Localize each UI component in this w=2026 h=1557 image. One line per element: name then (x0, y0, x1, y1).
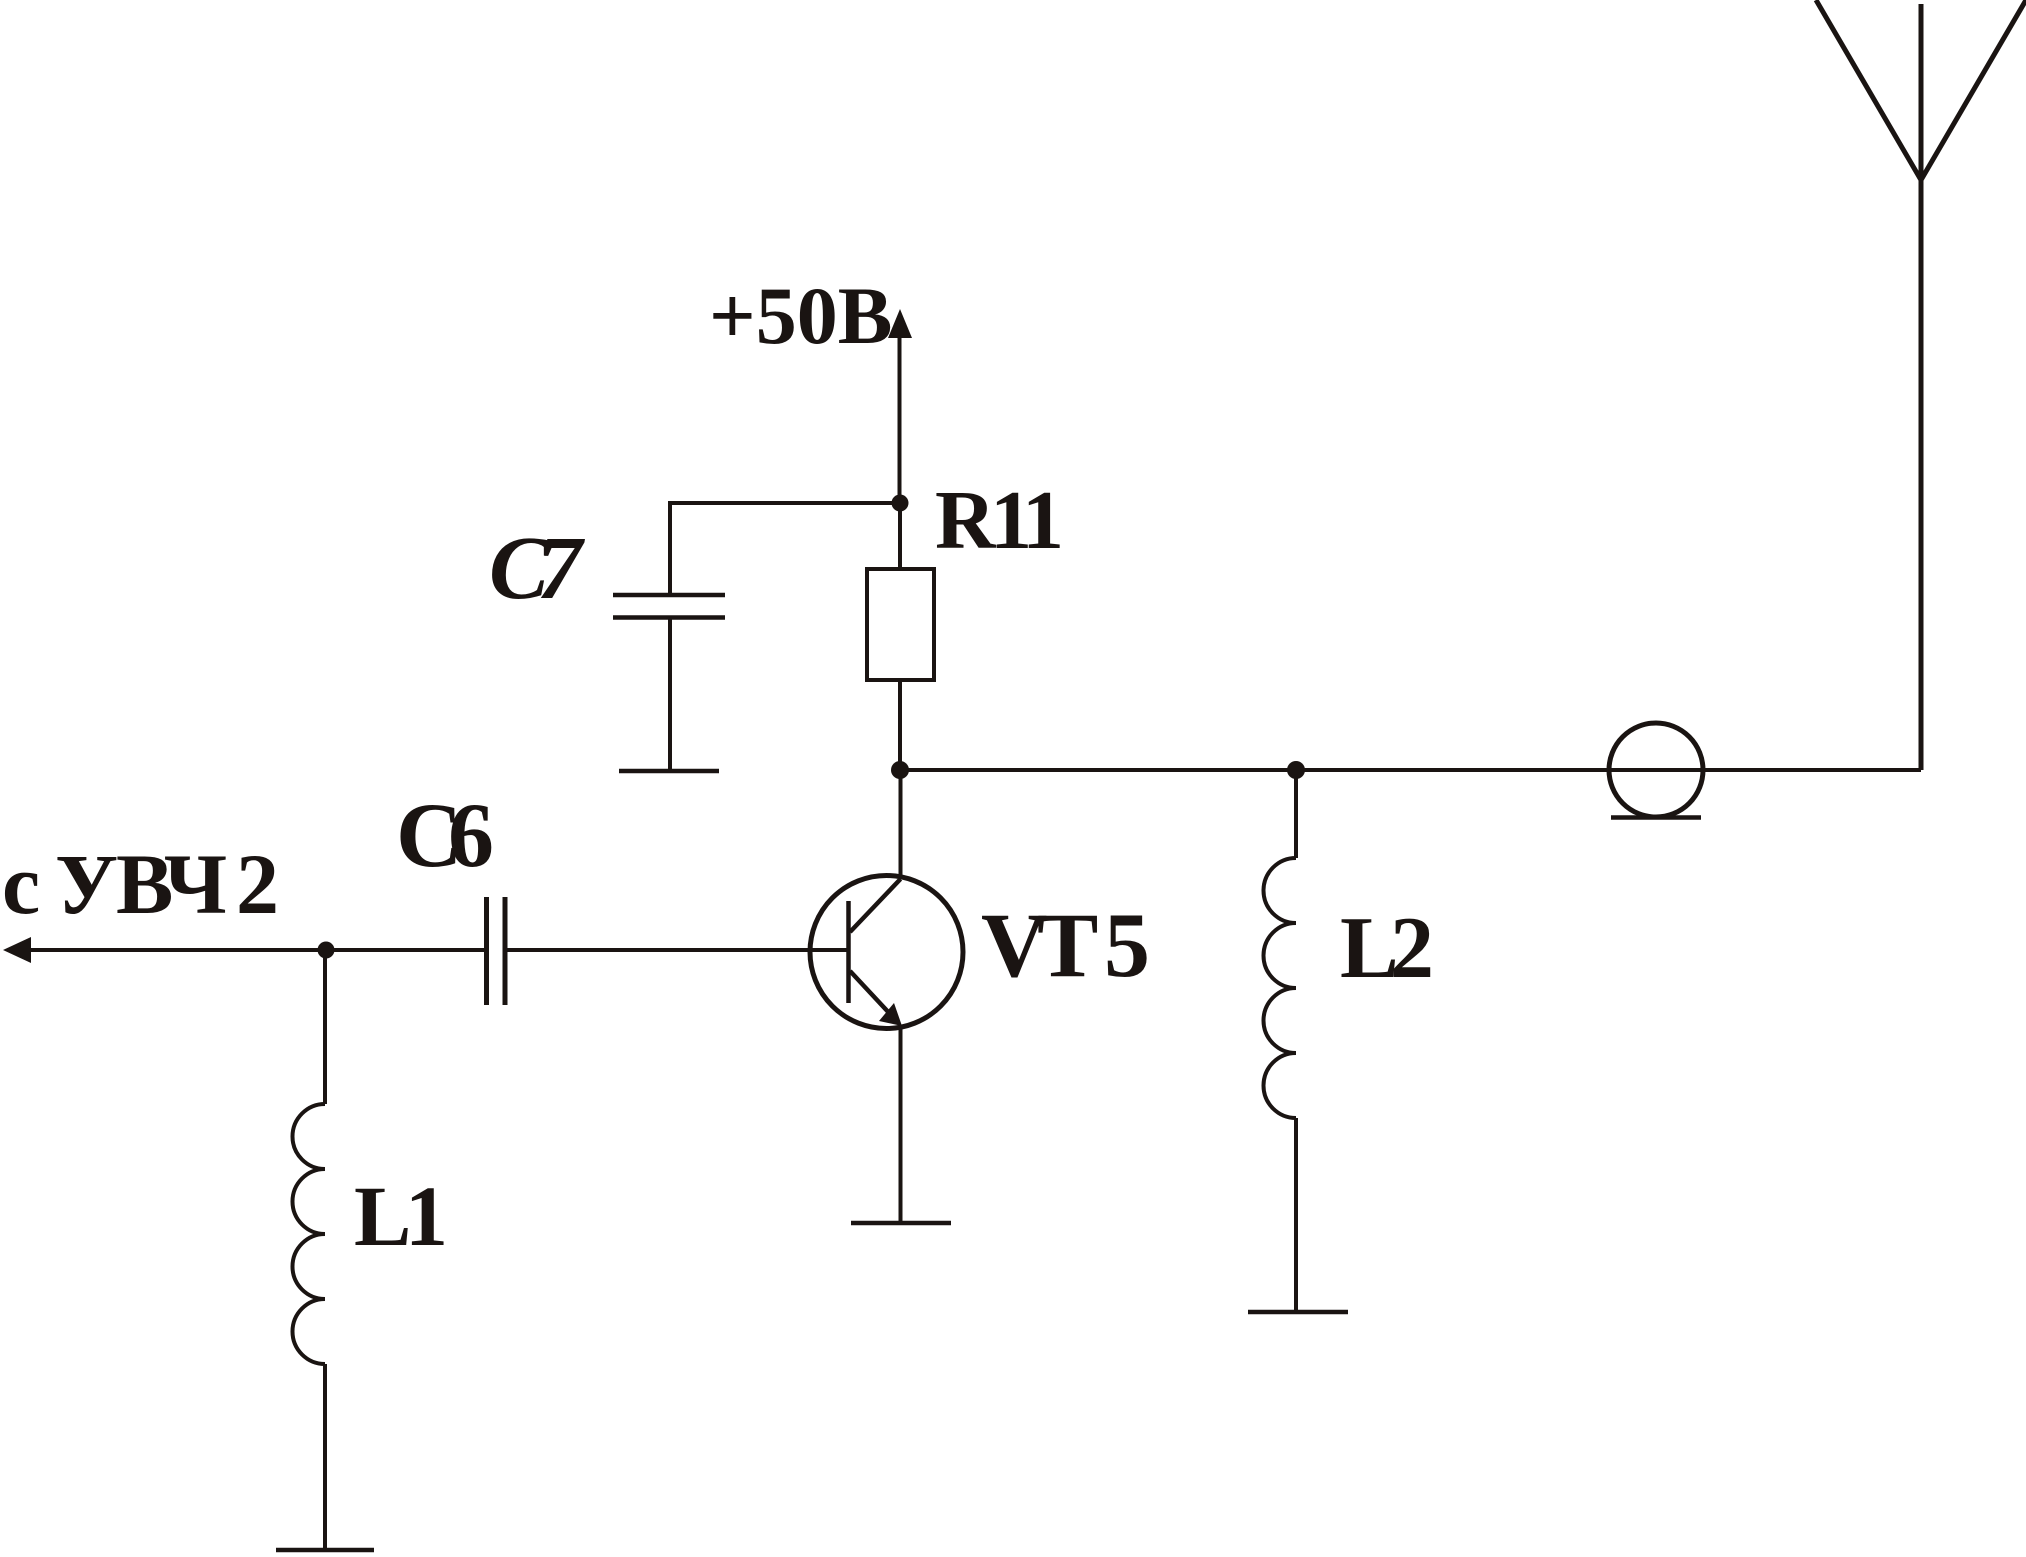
power +50V arrow terminal (898, 334, 902, 503)
transistor VT5 body (810, 876, 963, 1029)
svg-text:C7: C7 (489, 519, 585, 618)
wire emitter to ground (899, 1028, 903, 1223)
wire L2 to ground (1294, 1118, 1298, 1312)
resistor R11 (867, 569, 934, 680)
node junction bus / L2 (1287, 761, 1305, 779)
wire C7 to ground (668, 618, 672, 772)
wire node down to L2 (1294, 770, 1298, 858)
wire +50V feed down to R11 (898, 503, 902, 569)
wire C7 to +50V node (670, 503, 900, 595)
wire R11 to collector node (898, 680, 902, 770)
node junction R11 / bus / collector (891, 761, 909, 779)
transistor VT5 emitter arrow (879, 1003, 902, 1026)
wire L1 to ground (323, 1364, 327, 1550)
wire output to node L1 (28, 948, 326, 952)
svg-text:+50В: +50В (709, 270, 892, 361)
ground for L1 (276, 1548, 374, 1553)
svg-text:L2: L2 (1340, 900, 1434, 997)
svg-text:C6: C6 (396, 784, 494, 886)
capacitor C7 (613, 595, 725, 618)
node junction +50V / C7 / R11 (892, 495, 909, 512)
transistor VT5 collector stroke (850, 879, 901, 932)
inductor L2 (1264, 858, 1297, 1118)
wire C6 to base (507, 948, 848, 952)
svg-text:VT5: VT5 (981, 894, 1150, 996)
ground for L2 (1248, 1310, 1348, 1315)
antenna jack XW1 base bar (1611, 815, 1701, 820)
arrow to UVCh2 (3, 937, 31, 963)
antenna WA1 mast (1816, 0, 2026, 770)
svg-text:R11: R11 (935, 474, 1064, 567)
capacitor C6 (487, 897, 506, 1005)
ground for emitter (851, 1221, 951, 1226)
wire main bus collector to antenna (900, 768, 1921, 772)
wire node down to L1 (323, 950, 327, 1104)
antenna jack XW1 circle (1609, 723, 1703, 817)
inductor L1 (293, 1104, 326, 1364)
wire node to C6 (326, 948, 484, 952)
wire collector (899, 770, 903, 879)
svg-text:L1: L1 (354, 1168, 448, 1264)
node junction L1 / C6 (318, 942, 335, 959)
transistor VT5 emitter stroke (850, 971, 891, 1015)
svg-text:с УВЧ 2: с УВЧ 2 (2, 836, 279, 932)
ground for C7 (619, 769, 719, 774)
transistor VT5 base bar (846, 901, 851, 1003)
